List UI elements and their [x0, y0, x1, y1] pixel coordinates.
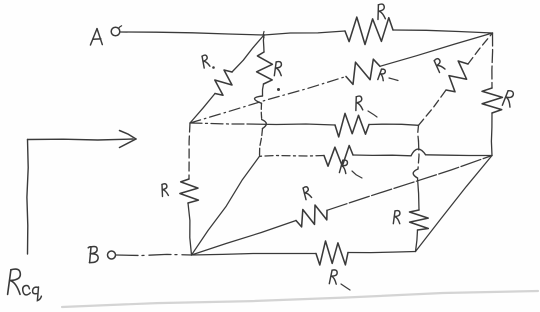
lead R11 to node 2 [380, 33, 493, 66]
terminal B circle [108, 251, 116, 259]
resistor R12 zigzag [296, 205, 327, 227]
label Req: e [23, 285, 31, 294]
hop bump over diagonal R12 [413, 169, 418, 178]
lead R10 to node 2 [468, 33, 493, 64]
label R of R12 [301, 186, 311, 200]
current arrow vertical lead [27, 140, 28, 255]
lead R2 to node 3 [490, 113, 493, 156]
resistor R11 long diagonal 5-2: lead dash-dot [190, 77, 346, 124]
lead R12 to node 3 [327, 156, 492, 211]
label Req: R [8, 269, 21, 294]
resistor R8 front-bottom edge: lead from node 8 [192, 254, 317, 256]
wire A to node 1 [121, 32, 265, 35]
label R of R11 [378, 69, 386, 81]
hop bump over front-top rail [262, 120, 267, 129]
lead R5 to node 6 [369, 124, 419, 125]
label Req: q with descender [33, 287, 42, 301]
resistor R9 zigzag [215, 70, 232, 95]
hop bump over front-right vertical [411, 149, 426, 156]
wire B to node 8 dash-dot [116, 254, 192, 255]
plain wire edge node7-node3 [416, 156, 493, 252]
resistor R9 oblique edge 5-1: lead [190, 94, 215, 124]
label R of R6 [160, 183, 168, 196]
resistor R6 front-left edge: lead from node 5 [189, 123, 190, 179]
resistor R7 zigzag [410, 210, 429, 230]
label R of R5 [354, 96, 363, 111]
arrowhead upper barb [120, 131, 137, 140]
wire segment [260, 103, 263, 119]
label R9 trailing dot [212, 66, 215, 69]
label R of R10 [433, 58, 446, 73]
label R of R9 [200, 54, 210, 68]
lead R9 to node 1 [232, 35, 264, 72]
label R of R1 [376, 4, 385, 20]
wire segment crossing rail [418, 141, 419, 169]
resistor R10 zigzag [446, 61, 468, 92]
terminal A label [90, 29, 102, 45]
back-bottom rail from node 3 [426, 154, 492, 157]
resistor R6 zigzag [180, 179, 199, 203]
resistor R4 back-left edge: lead from node 1 [262, 35, 265, 52]
resistor R10 oblique edge 6-2: lead [419, 90, 447, 125]
resistor R5 front-top edge: lead from node 5 [190, 123, 247, 124]
resistor R2 zigzag [482, 88, 502, 113]
resistor R3 back-bottom: lead [353, 154, 411, 157]
lead R8 to node 7 [348, 252, 416, 253]
lead below R4 [263, 84, 264, 96]
resistor R11 zigzag [346, 59, 380, 84]
lead R3 to node 4 [260, 155, 325, 158]
wire to node 4 [260, 129, 263, 157]
lead wire R1 to node 2 [393, 30, 493, 33]
resistor R1 zigzag [345, 17, 393, 44]
label R of R3 [339, 160, 347, 174]
label R8 flourish stroke [341, 284, 350, 290]
label R5 flourish stroke [368, 111, 377, 117]
stray ink dot [277, 88, 280, 91]
wire to R7 [418, 178, 420, 210]
label R3 flourish stroke [352, 171, 362, 178]
resistor R1 top back edge: lead wire [264, 31, 345, 35]
resistor R5 zigzag [335, 113, 369, 136]
resistor R2 back-right edge: lead from node 2 [491, 33, 494, 88]
lead R7 to node 7 [416, 230, 418, 252]
hop bump over diagonal R11 [255, 96, 263, 103]
node 1 junction dot [263, 34, 265, 36]
resistor R8 zigzag [316, 241, 348, 265]
label R of R8 [329, 270, 337, 285]
plain wire edge node8-node4 [192, 156, 260, 255]
label R of R2 [502, 90, 514, 107]
faint scan artifact line at bottom [62, 291, 538, 307]
resistor R12 long diagonal 8-3: lead [192, 221, 297, 256]
lead R6 to node 8 [188, 203, 192, 255]
terminal A circle tail [119, 26, 122, 29]
resistor R3 zigzag [324, 146, 353, 167]
current arrow shaft [28, 139, 134, 140]
terminal A circle [111, 27, 120, 36]
resistor R7 front-right edge: lead from node 6 [417, 125, 420, 141]
arrowhead lower barb [120, 139, 137, 148]
label R of R4 [274, 62, 281, 76]
resistor R4 zigzag [257, 52, 273, 84]
node 1 vertical overshoot tick [262, 32, 265, 38]
label R of R7 [393, 211, 400, 224]
terminal B label [88, 246, 98, 262]
label R11 flourish [389, 78, 398, 81]
